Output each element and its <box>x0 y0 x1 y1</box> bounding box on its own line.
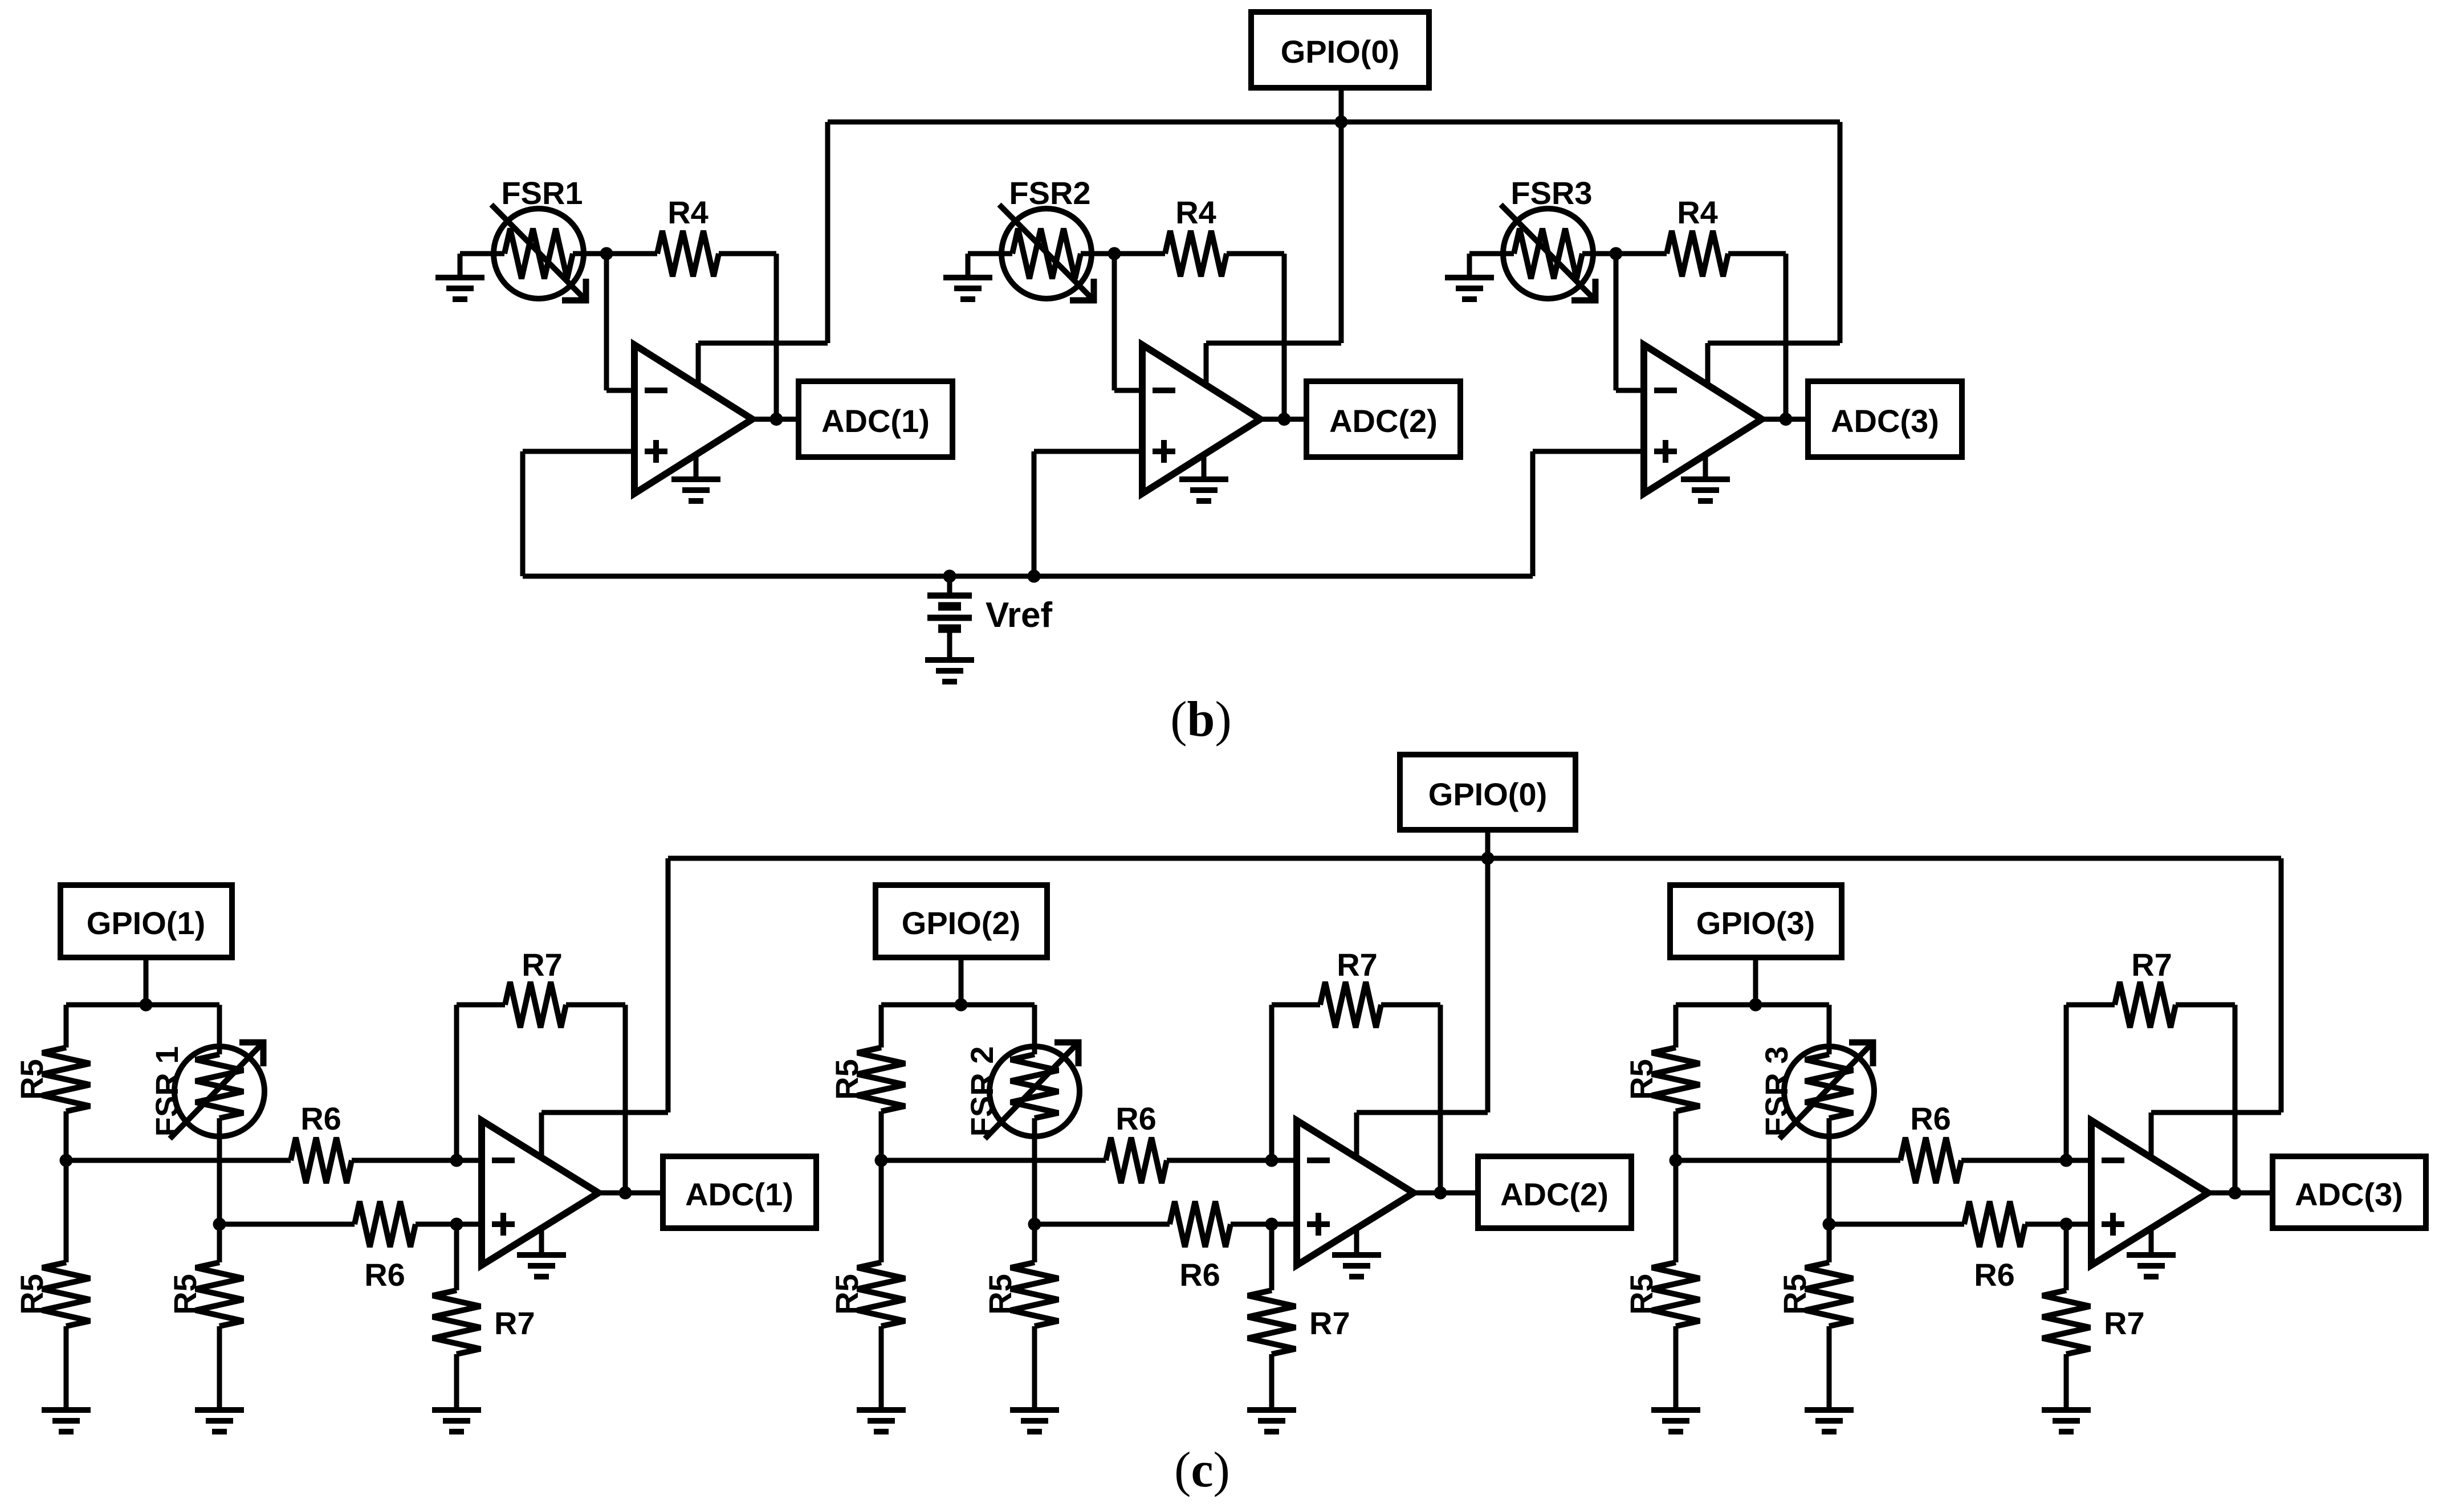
op-amp U3 (section b) <box>1644 345 1762 494</box>
svg-text:R6: R6 <box>1179 1257 1220 1293</box>
svg-text:R5: R5 <box>1777 1274 1813 1315</box>
ground (lower-mid column, c block 1) <box>195 1410 244 1432</box>
svg-text:R4: R4 <box>667 194 709 230</box>
junction GPIO(2) stem/rail <box>955 999 968 1012</box>
ground (left of FSR3) <box>1445 278 1494 299</box>
resistor R7 to ground (c block 3) <box>2042 1224 2090 1410</box>
junction non-inverting divider node (c block 3) <box>1823 1218 1836 1231</box>
junction inverting input node (block 2) <box>1108 247 1121 260</box>
wire GPIO(0) drop to op-amp (c block 1) <box>541 858 668 1158</box>
svg-text:GPIO(1): GPIO(1) <box>87 905 205 941</box>
svg-text:R6: R6 <box>364 1257 405 1293</box>
wire op-amp ground stub (c block 3) <box>2149 1228 2154 1253</box>
svg-text:FSR1: FSR1 <box>501 175 583 211</box>
ground (lower-left column, c block 3) <box>1651 1410 1700 1432</box>
op-amp U3 (section c) <box>2091 1120 2208 1265</box>
resistor R6 inverting (c block 1) <box>66 1138 487 1183</box>
svg-text:R6: R6 <box>300 1101 341 1136</box>
resistor R6 non-inverting (c block 1) <box>219 1201 487 1247</box>
svg-text:R5: R5 <box>167 1274 203 1315</box>
wire op-amp U3 output to ADC(3) <box>1762 417 1808 422</box>
resistor R7 feedback (c block 1) <box>457 982 625 1193</box>
ground (op-amp, c block 2) <box>1332 1255 1381 1277</box>
wire op-amp output to ADC(1) (c block 1) <box>598 1191 663 1196</box>
ADC(3) box (section c) <box>2273 1156 2426 1228</box>
junction inverting divider node (c block 3) <box>1670 1154 1683 1167</box>
junction block2 non-inverting tap <box>1028 570 1041 583</box>
wire op-amp output to ADC(3) (c block 3) <box>2208 1191 2273 1196</box>
FSR resistor FSR2 (section c) <box>985 1005 1080 1224</box>
svg-text:GPIO(3): GPIO(3) <box>1696 905 1815 941</box>
wire op-amp U1 output to ADC(1) <box>752 417 799 422</box>
svg-text:R4: R4 <box>1677 194 1718 230</box>
junction inverting input node (block 1) <box>600 247 613 260</box>
resistor R5 lower-mid (c block 1) <box>196 1224 243 1410</box>
op-amp U1 (section b) <box>634 345 752 494</box>
svg-text:(b): (b) <box>1170 692 1232 747</box>
GPIO(1) box <box>60 885 232 957</box>
junction output node (block 2) <box>1278 413 1291 426</box>
resistor R6 inverting (c block 2) <box>881 1138 1302 1183</box>
svg-text:R7: R7 <box>1337 947 1378 983</box>
svg-text:ADC(2): ADC(2) <box>1500 1176 1609 1212</box>
FSR resistor FSR2 (force sensing resistor) <box>999 205 1094 300</box>
junction R6/R7 non-inverting node (c block 3) <box>2060 1218 2073 1231</box>
wire inverting input (block 2) <box>1114 254 1148 390</box>
junction output node (block 1) <box>770 413 783 426</box>
FSR resistor FSR1 (section c) <box>170 1005 264 1224</box>
wire op-amp U2 output to ADC(2) <box>1260 417 1306 422</box>
wire op-amp U1 ground stub <box>694 455 699 478</box>
svg-text:GPIO(2): GPIO(2) <box>902 905 1020 941</box>
ground (lower-mid column, c block 2) <box>1010 1410 1059 1432</box>
resistor R5 upper-left (c block 3) <box>1652 1005 1700 1160</box>
svg-text:ADC(1): ADC(1) <box>821 403 930 439</box>
svg-text:R6: R6 <box>1115 1101 1157 1136</box>
GPIO(0) box (section b) <box>1251 12 1429 88</box>
svg-text:GPIO(0): GPIO(0) <box>1281 34 1399 70</box>
wire GPIO(0) drop to op-amp U1 top (block 1) <box>698 122 828 389</box>
op-amp U1 (section c) <box>482 1120 598 1265</box>
wire FSR1 left lead to ground <box>460 254 504 275</box>
junction output node (block 3) <box>1780 413 1793 426</box>
svg-text:ADC(2): ADC(2) <box>1329 403 1438 439</box>
svg-text:R5: R5 <box>14 1274 50 1315</box>
junction R6/R7 inverting node (c block 3) <box>2060 1154 2073 1167</box>
junction non-inverting divider node (c block 1) <box>213 1218 226 1231</box>
wire GPIO(0) drop to op-amp (c block 3) <box>2151 858 2281 1158</box>
ground (op-amp, c block 1) <box>517 1255 566 1277</box>
GPIO(3) box <box>1670 885 1842 957</box>
ADC(1) box (section b) <box>799 381 952 457</box>
wire R4 feedback down to output node (block 1) <box>774 254 779 419</box>
junction inverting divider node (c block 2) <box>875 1154 888 1167</box>
wire inverting input (block 1) <box>606 254 640 390</box>
ground (op-amp U2) <box>1179 479 1228 501</box>
resistor R4 (block 1) <box>606 231 776 276</box>
battery Vref <box>927 576 972 657</box>
resistor R6 inverting (c block 3) <box>1676 1138 2097 1183</box>
junction output node (c block 3) <box>2229 1187 2242 1200</box>
wire FSR3 left lead to ground <box>1469 254 1514 275</box>
junction output node (c block 1) <box>619 1187 632 1200</box>
svg-text:(c): (c) <box>1174 1442 1230 1498</box>
wire non-inverting input from Vref rail (block 1) <box>523 451 640 576</box>
svg-text:R7: R7 <box>494 1305 535 1341</box>
wire divider top rail (c block 2) <box>881 1002 1035 1008</box>
svg-text:FSR 1: FSR 1 <box>149 1046 185 1137</box>
ground (op-amp, c block 3) <box>2127 1255 2176 1277</box>
ADC(1) box (section c) <box>663 1156 816 1228</box>
resistor R7 feedback (c block 3) <box>2066 982 2235 1193</box>
svg-text:FSR2: FSR2 <box>1009 175 1090 211</box>
wire FSR2 to inverting node <box>1092 251 1114 256</box>
svg-text:FSR3: FSR3 <box>1510 175 1592 211</box>
svg-text:R5: R5 <box>982 1274 1018 1315</box>
ground (lower-left column, c block 1) <box>42 1410 91 1432</box>
ground (R7, c block 2) <box>1247 1410 1296 1432</box>
svg-text:R5: R5 <box>1623 1274 1659 1315</box>
GPIO(2) box <box>876 885 1047 957</box>
junction output node (c block 2) <box>1434 1187 1447 1200</box>
resistor R5 lower-left (c block 3) <box>1652 1160 1700 1410</box>
junction R6/R7 non-inverting node (c block 1) <box>450 1218 463 1231</box>
svg-text:FSR 2: FSR 2 <box>964 1046 1000 1137</box>
junction R6/R7 inverting node (c block 2) <box>1265 1154 1278 1167</box>
op-amp U2 (section c) <box>1297 1120 1414 1265</box>
resistor R5 lower-left (c block 2) <box>857 1160 905 1410</box>
wire GPIO(0) bus (section b) <box>828 120 1840 125</box>
resistor R7 feedback (c block 2) <box>1272 982 1440 1193</box>
junction R6/R7 inverting node (c block 1) <box>450 1154 463 1167</box>
FSR resistor FSR3 (force sensing resistor) <box>1501 205 1595 300</box>
wire op-amp ground stub (c block 2) <box>1354 1228 1359 1253</box>
wire R4 feedback down to output node (block 3) <box>1784 254 1789 419</box>
wire FSR2 left lead to ground <box>968 254 1012 275</box>
resistor R6 non-inverting (c block 2) <box>1035 1201 1302 1247</box>
ground (Vref battery) <box>925 660 974 682</box>
junction GPIO(0)/bus (section c) <box>1481 852 1495 865</box>
ADC(2) box (section c) <box>1478 1156 1631 1228</box>
svg-text:R6: R6 <box>1974 1257 2015 1293</box>
wire GPIO(0) stem down to op-amp (c block 2) <box>1485 830 1491 1112</box>
svg-text:R7: R7 <box>2131 947 2172 983</box>
ground (op-amp U3) <box>1681 479 1730 501</box>
resistor R5 lower-mid (c block 2) <box>1011 1224 1058 1410</box>
wire inverting input (block 3) <box>1616 254 1650 390</box>
wire op-amp ground stub (c block 1) <box>539 1228 544 1253</box>
resistor R4 (block 2) <box>1114 231 1284 276</box>
wire op-amp output to ADC(2) (c block 2) <box>1414 1191 1478 1196</box>
resistor R5 upper-left (c block 2) <box>857 1005 905 1160</box>
wire divider top rail (c block 1) <box>66 1002 219 1008</box>
wire GPIO(3) stem <box>1753 957 1758 1005</box>
wire non-inverting input from Vref rail (block 2) <box>1034 451 1148 576</box>
FSR resistor FSR1 (force sensing resistor) <box>491 205 586 300</box>
ground (left of FSR1) <box>435 278 484 299</box>
wire op-amp U3 ground stub <box>1703 455 1708 478</box>
FSR resistor FSR3 (section c) <box>1780 1005 1874 1224</box>
junction inverting divider node (c block 1) <box>60 1154 73 1167</box>
wire GPIO(0) bus (section c) <box>668 856 2281 861</box>
resistor R5 lower-mid (c block 3) <box>1805 1224 1853 1410</box>
wire GPIO(2) stem <box>959 957 964 1005</box>
svg-text:GPIO(0): GPIO(0) <box>1428 776 1547 812</box>
ground (R7, c block 3) <box>2042 1410 2091 1432</box>
wire FSR3 to inverting node <box>1593 251 1616 256</box>
resistor R7 to ground (c block 2) <box>1248 1224 1296 1410</box>
ground (lower-left column, c block 2) <box>857 1410 906 1432</box>
wire GPIO(1) stem <box>144 957 149 1005</box>
svg-text:ADC(1): ADC(1) <box>685 1176 793 1212</box>
wire GPIO(0) drop to op-amp U2 top (block 2) <box>1206 122 1341 389</box>
junction Vref tap <box>943 570 956 583</box>
svg-text:R5: R5 <box>14 1059 50 1100</box>
wire R4 feedback down to output node (block 2) <box>1282 254 1287 419</box>
junction non-inverting divider node (c block 2) <box>1028 1218 1041 1231</box>
svg-text:ADC(3): ADC(3) <box>1831 403 1939 439</box>
wire GPIO(0) drop to op-amp U3 top (block 3) <box>1708 122 1840 389</box>
wire Vref rail (section b) <box>523 574 1533 579</box>
ground (op-amp U1) <box>671 479 720 501</box>
wire divider top rail (c block 3) <box>1676 1002 1829 1008</box>
junction R6/R7 non-inverting node (c block 2) <box>1265 1218 1278 1231</box>
ground (left of FSR2) <box>943 278 992 299</box>
junction GPIO(0)/bus <box>1335 116 1348 129</box>
svg-text:Vref: Vref <box>986 596 1053 635</box>
svg-text:ADC(3): ADC(3) <box>2295 1176 2403 1212</box>
resistor R7 to ground (c block 1) <box>433 1224 481 1410</box>
wire GPIO(0) stem down through bus to op-amp U2 enable <box>1339 88 1344 343</box>
resistor R5 lower-left (c block 1) <box>42 1160 90 1410</box>
wire GPIO(0) drop to op-amp (c block 2) <box>1357 858 1488 1158</box>
svg-text:R5: R5 <box>1623 1059 1659 1100</box>
resistor R5 upper-left (c block 1) <box>42 1005 90 1160</box>
svg-text:R7: R7 <box>522 947 563 983</box>
junction GPIO(3) stem/rail <box>1749 999 1762 1012</box>
wire FSR1 to inverting node <box>584 251 606 256</box>
wire op-amp U2 ground stub <box>1202 455 1207 478</box>
svg-text:FSR 3: FSR 3 <box>1758 1046 1794 1137</box>
GPIO(0) box (section c) <box>1400 755 1575 830</box>
ground (R7, c block 1) <box>432 1410 481 1432</box>
resistor R6 non-inverting (c block 3) <box>1829 1201 2097 1247</box>
svg-text:R4: R4 <box>1175 194 1216 230</box>
svg-text:R6: R6 <box>1910 1101 1951 1136</box>
junction inverting input node (block 3) <box>1610 247 1623 260</box>
svg-text:R7: R7 <box>1309 1305 1350 1341</box>
svg-text:R7: R7 <box>2104 1305 2145 1341</box>
wire non-inverting input from Vref rail (block 3) <box>1533 451 1650 576</box>
ADC(2) box (section b) <box>1306 381 1460 457</box>
ground (lower-mid column, c block 3) <box>1805 1410 1854 1432</box>
op-amp U2 (section b) <box>1142 345 1260 494</box>
svg-text:R5: R5 <box>829 1274 865 1315</box>
ADC(3) box (section b) <box>1808 381 1962 457</box>
junction GPIO(1) stem/rail <box>140 999 153 1012</box>
resistor R4 (block 3) <box>1616 231 1786 276</box>
svg-text:R5: R5 <box>829 1059 865 1100</box>
